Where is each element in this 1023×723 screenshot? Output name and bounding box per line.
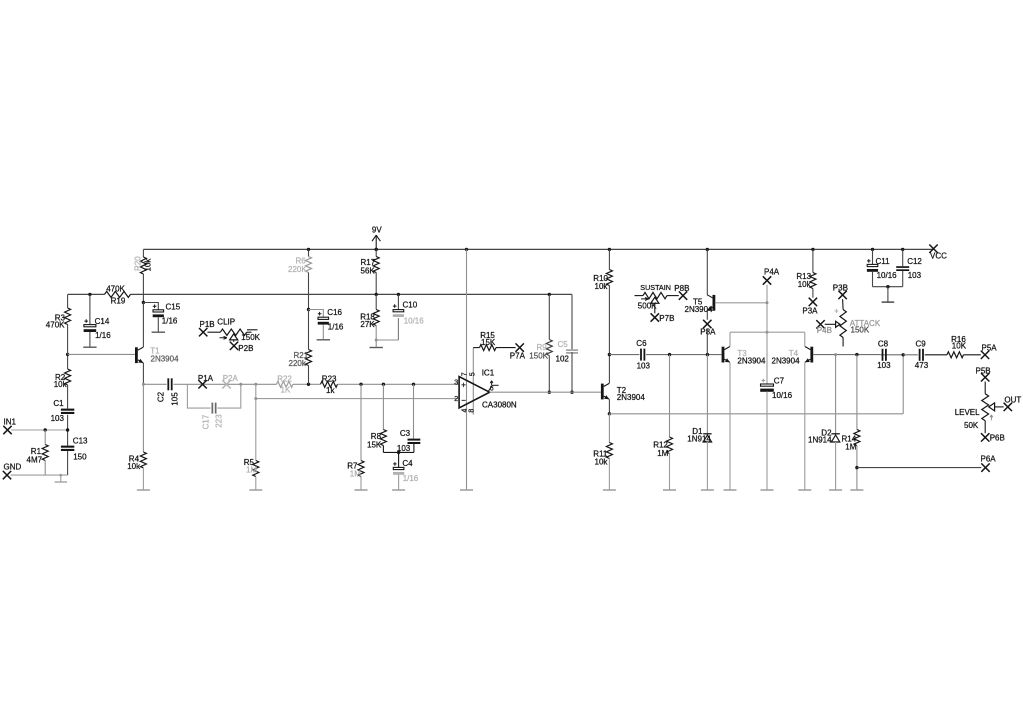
ground C4 (392, 489, 405, 491)
svg-text:10/16: 10/16 (772, 391, 793, 400)
junction T1 base (66, 353, 69, 356)
junction C1-C13 (66, 428, 69, 431)
svg-text:2N3904: 2N3904 (772, 356, 801, 365)
junction C12 rail (901, 248, 904, 251)
resistor R3 (46, 294, 71, 354)
transistor T4 (772, 347, 814, 366)
svg-text:10/16: 10/16 (404, 317, 425, 326)
ground C7 (761, 489, 774, 491)
svg-text:R20: R20 (134, 256, 143, 271)
resistor R19 (105, 284, 131, 305)
capacitor C4 (393, 452, 419, 489)
svg-text:105: 105 (171, 392, 180, 406)
ground R7 (355, 489, 368, 491)
resistor R12 (653, 355, 672, 490)
wire IC1 pin7-pin4 (466, 249, 468, 489)
node IN1 (3, 418, 16, 435)
junction R18 bottom (375, 339, 378, 342)
svg-text:IC1: IC1 (482, 368, 495, 377)
wire T3 collector (729, 332, 731, 346)
svg-text:P1B: P1B (200, 320, 215, 329)
capacitor C14 (84, 294, 112, 346)
node P3B (833, 284, 848, 300)
resistor R17 (361, 249, 380, 294)
node P7A (510, 343, 526, 360)
resistor R13 (796, 249, 816, 297)
ground C11 C12 (882, 287, 895, 302)
ground R12 (663, 489, 676, 491)
ground input (55, 475, 67, 482)
wire T1 base (68, 353, 135, 355)
wire R18-C10 bottom (376, 339, 398, 341)
resistor R11 (593, 414, 612, 490)
capacitor C12 (896, 249, 922, 286)
svg-text:470K: 470K (106, 284, 125, 293)
node P6A (981, 455, 997, 472)
svg-text:9V: 9V (372, 226, 382, 235)
svg-text:10k: 10k (595, 282, 609, 291)
svg-text:P8A: P8A (700, 328, 716, 337)
resistor R18 (360, 294, 379, 340)
wire C11-C12 bottom (873, 286, 903, 288)
svg-text:P4B: P4B (817, 326, 832, 335)
svg-text:7: 7 (461, 372, 468, 376)
ground C14 (83, 346, 96, 348)
svg-text:10k: 10k (127, 462, 141, 471)
junction R5 top (254, 397, 257, 400)
junction GND node (59, 474, 62, 477)
wire collector bus (730, 331, 805, 333)
svg-text:1K: 1K (281, 386, 291, 395)
junction collector bus (766, 331, 769, 334)
svg-text:1k: 1k (326, 386, 335, 395)
junction R10 rail (608, 248, 611, 251)
svg-text:470K: 470K (46, 321, 65, 330)
capacitor C1 (51, 399, 75, 423)
capacitor C10 (393, 294, 424, 340)
junction T5 collector rail (706, 248, 709, 251)
svg-text:10k: 10k (144, 258, 153, 272)
transistor T3 (722, 347, 766, 366)
junction R18 top (375, 293, 378, 296)
node P6B (981, 433, 1005, 443)
svg-text:C16: C16 (327, 308, 342, 317)
wire T5 base (715, 302, 767, 304)
node P1B (199, 320, 215, 336)
ground C16 (317, 339, 330, 341)
wire emitter bus (609, 355, 903, 414)
svg-text:10k: 10k (595, 458, 609, 467)
junction C4 top (397, 451, 400, 454)
junction T3 base node (706, 353, 709, 356)
junction T1 collector (142, 301, 145, 304)
resistor R2 (54, 354, 71, 408)
capacitor C15 (143, 303, 180, 332)
wire C8 left (881, 354, 903, 356)
junction R21 bottom (307, 383, 310, 386)
wire IN1 (11, 429, 67, 431)
svg-text:C2: C2 (157, 391, 166, 402)
junction D2 top (834, 353, 837, 356)
resistor R1 (27, 430, 49, 475)
svg-text:150K: 150K (529, 352, 548, 361)
capacitor C13 (61, 415, 88, 475)
node GND (3, 463, 22, 480)
svg-text:220k: 220k (289, 359, 307, 368)
svg-text:27K: 27K (360, 320, 375, 329)
svg-text:15K: 15K (367, 440, 382, 449)
junction inverting branch (254, 383, 257, 386)
node P2B (230, 342, 254, 353)
wire C2 left (143, 383, 166, 385)
junction R6 top (307, 248, 310, 251)
svg-text:SUSTAIN: SUSTAIN (640, 283, 671, 292)
resistor R5 (244, 399, 259, 490)
svg-text:103: 103 (908, 271, 922, 280)
svg-text:P3A: P3A (802, 307, 818, 316)
svg-text:C11: C11 (876, 257, 891, 266)
ground IC1 pin4 (460, 489, 473, 491)
svg-text:2: 2 (454, 394, 458, 403)
svg-text:C5: C5 (558, 340, 569, 349)
resistor R22 (277, 374, 294, 394)
junction 9V rail (375, 248, 378, 251)
svg-text:C9: C9 (916, 339, 927, 348)
potentiometer ATTACK 150K (825, 299, 881, 346)
svg-text:R22: R22 (277, 374, 292, 383)
wire 9V rail (143, 248, 933, 250)
svg-text:P2A: P2A (223, 374, 239, 383)
node P7B (651, 313, 675, 323)
svg-text:C7: C7 (774, 377, 785, 386)
node P5B (976, 366, 991, 381)
wire C2 to P2A (173, 383, 276, 385)
svg-text:500K: 500K (638, 302, 657, 311)
resistor R7 (347, 384, 364, 489)
svg-text:P7B: P7B (659, 314, 674, 323)
junction IC1 pin7 rail (465, 248, 468, 251)
ground R11 (603, 489, 616, 491)
svg-text:2N3904: 2N3904 (737, 356, 766, 365)
capacitor C2 (157, 378, 180, 405)
svg-text:CLIP: CLIP (217, 318, 235, 327)
svg-text:10/16: 10/16 (877, 271, 898, 280)
wire GND (11, 474, 68, 476)
junction T1 emitter (142, 383, 145, 386)
resistor R14 (842, 355, 860, 490)
capacitor C9 (903, 339, 928, 370)
ground T3 emitter (724, 489, 737, 491)
svg-text:2N3904: 2N3904 (617, 393, 646, 402)
svg-text:10K: 10K (952, 341, 967, 350)
svg-text:10k: 10k (54, 380, 68, 389)
potentiometer CLIP 150K (207, 318, 260, 342)
ground C15 (152, 331, 165, 333)
resistor R4 (127, 384, 146, 489)
svg-text:8: 8 (468, 409, 475, 413)
node VCC (929, 245, 947, 261)
svg-text:R19: R19 (111, 297, 126, 306)
svg-text:5: 5 (469, 372, 476, 376)
wire T3 emitter (729, 362, 731, 489)
node P3A (802, 298, 818, 316)
wire T4 emitter (804, 362, 806, 489)
wire C6 right (646, 354, 722, 356)
junction C17 right (239, 383, 242, 386)
junction T5 base node (766, 301, 769, 304)
diode D2 (808, 355, 840, 490)
op-amp IC1 (454, 368, 517, 412)
svg-text:IN1: IN1 (4, 418, 17, 427)
wire inverting input (256, 384, 459, 398)
svg-text:1M: 1M (350, 470, 361, 479)
diode D1 (687, 355, 711, 490)
junction C8-C9 (902, 353, 905, 356)
svg-text:P6B: P6B (990, 434, 1005, 443)
svg-text:220K: 220K (288, 265, 307, 274)
svg-text:C15: C15 (166, 303, 181, 312)
svg-text:C12: C12 (907, 257, 922, 266)
potentiometer SUSTAIN 500K (635, 283, 679, 313)
svg-text:223: 223 (215, 414, 224, 428)
junction C16 branch (307, 308, 310, 311)
wire P4A down (766, 285, 768, 384)
svg-text:15K: 15K (481, 338, 496, 347)
svg-text:C1: C1 (53, 399, 64, 408)
node OUT (1004, 395, 1022, 411)
svg-text:C4: C4 (402, 459, 413, 468)
svg-text:50K: 50K (964, 421, 979, 430)
capacitor C6 (636, 339, 650, 370)
resistor R10 (593, 249, 612, 354)
capacitor C8 (877, 339, 891, 370)
svg-text:CA3080N: CA3080N (482, 401, 517, 410)
resistor R20 (134, 249, 153, 302)
wire T2 emitter (608, 399, 610, 414)
svg-text:150K: 150K (241, 333, 260, 342)
wire C6 left (609, 354, 639, 356)
wire R22-R23 (293, 383, 321, 385)
svg-text:OUT: OUT (1004, 395, 1021, 404)
svg-text:C6: C6 (636, 339, 647, 348)
svg-text:150: 150 (73, 453, 87, 462)
svg-text:P4A: P4A (764, 268, 780, 277)
junction R14 top (855, 353, 858, 356)
resistor R21 (289, 310, 312, 385)
node P8A (700, 320, 716, 337)
svg-text:C13: C13 (73, 437, 88, 446)
svg-text:C3: C3 (400, 429, 411, 438)
ground R4 (137, 489, 150, 491)
svg-text:4M7: 4M7 (27, 456, 43, 465)
svg-text:LEVEL: LEVEL (955, 408, 980, 417)
svg-text:GND: GND (4, 463, 22, 472)
svg-text:C14: C14 (95, 317, 110, 326)
junction R9 bottom (548, 391, 551, 394)
wire R8-C3 bottom (383, 451, 414, 453)
svg-text:1/16: 1/16 (328, 323, 344, 332)
svg-text:−: − (461, 396, 466, 405)
svg-text:473: 473 (915, 361, 929, 370)
ground R18 (370, 340, 383, 348)
node P2A (222, 374, 238, 389)
junction R8 top (382, 383, 385, 386)
wire T2 collector (608, 355, 610, 384)
resistor R8 (367, 384, 386, 452)
junction C11 rail (871, 248, 874, 251)
svg-text:1M: 1M (845, 443, 856, 452)
svg-text:R23: R23 (322, 374, 337, 383)
power 9V (372, 226, 382, 250)
ground T4 emitter (798, 489, 811, 491)
capacitor C3 (397, 384, 420, 453)
wire P8A to T3 base (706, 328, 708, 354)
svg-text:2N3904: 2N3904 (151, 355, 180, 364)
junction R17 top (375, 248, 378, 251)
svg-text:103: 103 (877, 361, 891, 370)
svg-text:1M: 1M (657, 449, 668, 458)
svg-text:10k: 10k (798, 280, 812, 289)
transistor T1 (135, 303, 179, 385)
svg-text:P2B: P2B (238, 344, 253, 353)
junction T2 collector node (608, 353, 611, 356)
junction R13 rail (811, 248, 814, 251)
node P8B (674, 284, 689, 300)
junction C14 top (88, 293, 91, 296)
resistor R9 (529, 294, 552, 392)
junction P6A (855, 466, 858, 469)
capacitor C17 (187, 384, 240, 429)
potentiometer LEVEL 50K (955, 382, 1004, 434)
junction R9 top (548, 293, 551, 296)
node P4B (816, 320, 832, 335)
junction R12 top (668, 353, 671, 356)
junction T2 emitter node (608, 412, 611, 415)
ground R5 (249, 489, 262, 491)
svg-text:2N3904: 2N3904 (685, 305, 714, 314)
wire T4 base (813, 354, 881, 356)
svg-text:1M: 1M (246, 466, 257, 475)
ground D1 (701, 489, 714, 491)
svg-text:1/16: 1/16 (162, 317, 178, 326)
resistor R15 (473, 331, 515, 350)
node P4A (763, 268, 780, 285)
resistor R23 (321, 374, 338, 395)
ground R14 (850, 489, 863, 491)
junction filter ground (886, 285, 889, 288)
svg-text:R9: R9 (537, 343, 548, 352)
capacitor C5 (556, 294, 579, 392)
capacitor C16 (309, 308, 344, 339)
svg-text:+: + (461, 381, 466, 390)
node P5A (981, 343, 997, 359)
svg-text:C8: C8 (878, 339, 889, 348)
ground D2 (829, 489, 842, 491)
junction R1 top (44, 428, 47, 431)
wire R23 to IC1 (338, 383, 460, 385)
junction R7 top (359, 383, 362, 386)
wire IC1 output (490, 391, 601, 393)
wire IC1 pin5-pin8 (472, 348, 474, 415)
svg-text:P6A: P6A (981, 455, 997, 464)
svg-text:150K: 150K (851, 325, 870, 334)
junction C3 top (412, 383, 415, 386)
wire P6A (857, 467, 981, 469)
resistor R16 (925, 335, 981, 358)
node P1A (198, 374, 214, 389)
svg-text:103: 103 (637, 361, 651, 370)
capacitor C11 (867, 249, 897, 286)
wire T4 collector (804, 332, 806, 346)
transistor T5 (685, 249, 716, 319)
svg-text:6: 6 (490, 386, 494, 393)
transistor T2 (601, 383, 645, 402)
svg-text:P7A: P7A (510, 352, 526, 361)
svg-text:1N914: 1N914 (687, 435, 711, 444)
svg-text:C10: C10 (403, 301, 418, 310)
svg-text:3: 3 (454, 378, 458, 387)
svg-text:103: 103 (51, 414, 65, 423)
svg-text:1/16: 1/16 (403, 474, 419, 483)
svg-text:102: 102 (556, 355, 570, 364)
capacitor C7 (760, 377, 792, 490)
svg-text:1/16: 1/16 (95, 331, 111, 340)
wire bias rail (68, 293, 572, 295)
junction C5 bottom (570, 391, 573, 394)
junction C10 top (397, 293, 400, 296)
svg-text:56K: 56K (361, 266, 376, 275)
svg-text:C17: C17 (202, 414, 211, 429)
resistor R6 (288, 249, 312, 309)
svg-text:1N914: 1N914 (808, 435, 832, 444)
svg-text:VCC: VCC (930, 252, 947, 261)
